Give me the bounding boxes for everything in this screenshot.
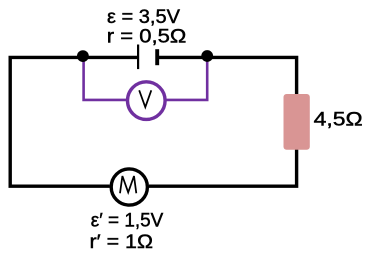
- svg-text:r′ = 1Ω: r′ = 1Ω: [90, 232, 154, 253]
- node B (right junction dot): [201, 50, 213, 62]
- svg-text:ε = 3,5V: ε = 3,5V: [107, 7, 180, 28]
- svg-text:ε′ = 1,5V: ε′ = 1,5V: [91, 211, 164, 232]
- wire: voltmeter left lead (purple): [84, 57, 130, 100]
- wire: voltmeter right lead (purple): [163, 57, 207, 100]
- wire: top-right + right + bottom-right loop segment: [149, 57, 297, 186]
- battery cell: short thick plate (right): [155, 49, 159, 65]
- node A (left junction dot): [77, 50, 89, 62]
- motor M (circle): [111, 169, 147, 205]
- battery cell: long thin plate (left): [137, 45, 139, 70]
- resistor R (4,5Ω) pink body: [284, 94, 310, 150]
- wire: top-left + left + bottom-left loop segment: [10, 57, 139, 186]
- voltmeter V (purple circle): [128, 82, 166, 120]
- svg-text:4,5Ω: 4,5Ω: [314, 109, 363, 130]
- voltmeter letter V: [139, 90, 151, 107]
- svg-text:r = 0,5Ω: r = 0,5Ω: [107, 27, 187, 48]
- motor letter M: [120, 176, 136, 193]
